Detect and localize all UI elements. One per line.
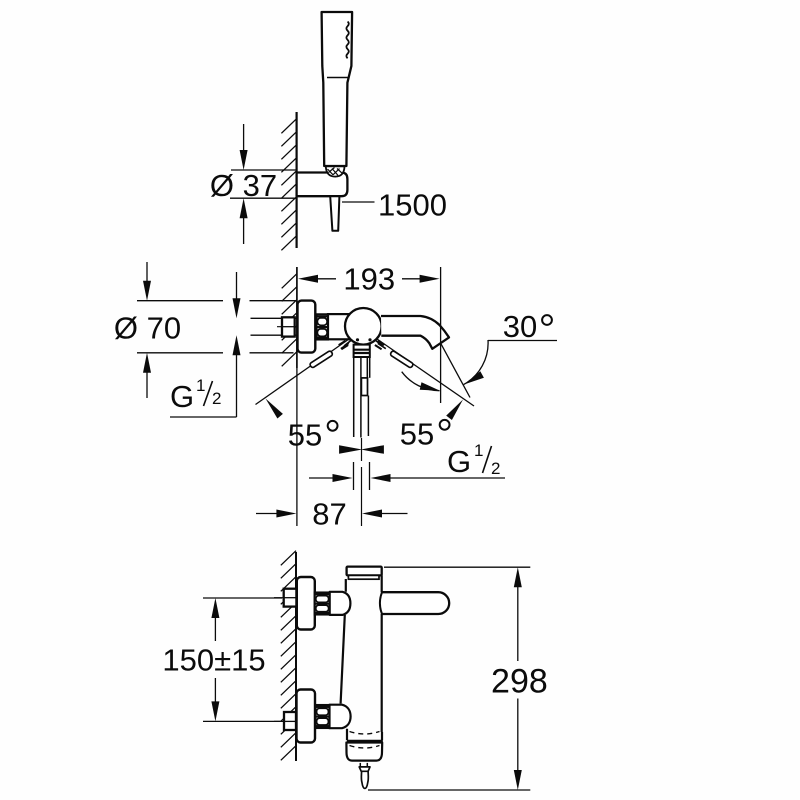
svg-text:87: 87 bbox=[312, 497, 346, 532]
svg-text:Ø 70: Ø 70 bbox=[114, 311, 181, 346]
mixer body tube bbox=[328, 314, 350, 339]
30deg arc arrow on outlet line bbox=[465, 371, 484, 384]
lower pipe centre line bbox=[274, 720, 284, 722]
dimension D70 extension lines bbox=[137, 300, 223, 302]
upper inlet boss on body bbox=[330, 592, 351, 615]
svg-text:193: 193 bbox=[343, 262, 395, 297]
hand shower head and handle bbox=[322, 12, 353, 166]
hose connection dashes bbox=[359, 763, 361, 767]
30deg outlet axis line bbox=[441, 343, 470, 397]
hose connection cone bbox=[359, 767, 370, 771]
svg-text:298: 298 bbox=[491, 663, 548, 701]
svg-text:2: 2 bbox=[491, 459, 500, 478]
concealed supply pipe behind wall bbox=[251, 317, 297, 319]
knurl ticks left of housing bbox=[344, 340, 352, 346]
dimension D37 arrows and dimension line bbox=[243, 124, 245, 152]
lever paddle tip bbox=[361, 378, 367, 396]
dimension 298 line and arrows bbox=[514, 567, 522, 587]
svg-text:1: 1 bbox=[474, 441, 483, 460]
cartridge housing circle bbox=[345, 308, 382, 345]
lever blade lines bbox=[353, 357, 355, 437]
svg-text:30: 30 bbox=[503, 309, 537, 344]
left extension line of 87 (wall face line continued) bbox=[296, 368, 298, 526]
leader line for 1500 hose length bbox=[342, 201, 375, 203]
dimension 298 extension lines bbox=[384, 566, 530, 568]
outlet cup bbox=[346, 743, 382, 761]
55deg angle arrows at centre line bbox=[361, 445, 384, 454]
G1/2 lever extension lines bbox=[353, 462, 355, 490]
shower head/handle joint line bbox=[327, 77, 348, 79]
union nut of mixer bbox=[317, 314, 329, 339]
ring below top cap bbox=[348, 575, 379, 579]
dimension G1/2 supply pipe arrows bbox=[236, 272, 238, 300]
upper wall escutcheon bbox=[297, 577, 315, 630]
upper pipe centre line bbox=[274, 597, 284, 599]
lever collar below housing bbox=[354, 345, 370, 357]
dimension 193 extension line right bbox=[440, 267, 442, 403]
top cap of body bbox=[347, 567, 382, 576]
svg-text:Ø 37: Ø 37 bbox=[210, 168, 277, 203]
lower union nut bbox=[316, 705, 330, 728]
30deg dimension arc outer segment bbox=[464, 340, 488, 385]
shower hose outlet below bracket bbox=[330, 196, 339, 231]
body of mixer side view bbox=[341, 575, 382, 732]
dimension 150 extension lines bbox=[203, 597, 282, 599]
hose nipple drop bbox=[361, 771, 368, 788]
knurl ticks right of housing bbox=[375, 340, 383, 346]
svg-text:1500: 1500 bbox=[378, 188, 447, 223]
spout bbox=[381, 316, 449, 349]
leader line under 30deg label bbox=[488, 340, 557, 342]
wall escutcheon flange of mixer bbox=[298, 301, 316, 353]
30deg arc arrow at vertical line bbox=[420, 382, 440, 391]
svg-text:G: G bbox=[170, 379, 194, 414]
lever centre line bbox=[361, 438, 363, 461]
55deg swing line right bbox=[377, 339, 474, 406]
wall holder bracket bbox=[297, 173, 348, 197]
dimension 150 line and arrows bbox=[211, 598, 219, 618]
upper union nut bbox=[315, 593, 330, 615]
holder cup holding shower handle bbox=[326, 166, 345, 176]
lever side view bbox=[382, 592, 449, 614]
upper union hex behind wall bbox=[284, 589, 297, 607]
lever phantom hollow grip left bbox=[309, 350, 333, 368]
dimension D70 arrows and dimension line bbox=[146, 262, 148, 282]
dimension 87 line and arrows bbox=[256, 513, 278, 515]
leader line to left G1/2 label bbox=[170, 416, 237, 418]
lever phantom short dashes left bbox=[341, 345, 348, 349]
G1/2 lever dimension arrows bbox=[309, 477, 334, 479]
lever phantom hollow grip right bbox=[390, 350, 414, 368]
svg-text:G: G bbox=[447, 444, 471, 479]
wall (side view) with hatching bbox=[281, 551, 296, 566]
screw dots on housing bbox=[356, 338, 359, 341]
svg-text:1: 1 bbox=[196, 376, 205, 395]
spray nozzle marks on shower head bbox=[346, 22, 348, 59]
55deg tangent arrow right bbox=[446, 400, 463, 421]
lower wall escutcheon bbox=[297, 690, 316, 743]
55deg tangent arrow left bbox=[266, 399, 283, 419]
svg-text:150±15: 150±15 bbox=[162, 643, 265, 678]
outlet upper band bbox=[347, 729, 382, 741]
dimension 193 line and arrows bbox=[298, 275, 318, 283]
wall (front view) with hatching bbox=[282, 274, 297, 289]
lower inlet boss on body bbox=[330, 705, 351, 729]
outlet separator ring bbox=[347, 740, 383, 743]
svg-text:55: 55 bbox=[288, 418, 322, 453]
55deg swing line left bbox=[256, 339, 350, 405]
lower union hex behind wall bbox=[284, 712, 296, 730]
dimension D37 extension lines bbox=[231, 169, 296, 171]
30deg dimension arc inner segment bbox=[402, 372, 440, 391]
svg-text:55: 55 bbox=[400, 417, 434, 452]
lever phantom short dashes right bbox=[375, 345, 382, 349]
svg-text:2: 2 bbox=[212, 389, 221, 408]
wall (top view) with hatching bbox=[281, 119, 296, 134]
pipe union hex behind wall bbox=[282, 317, 295, 336]
